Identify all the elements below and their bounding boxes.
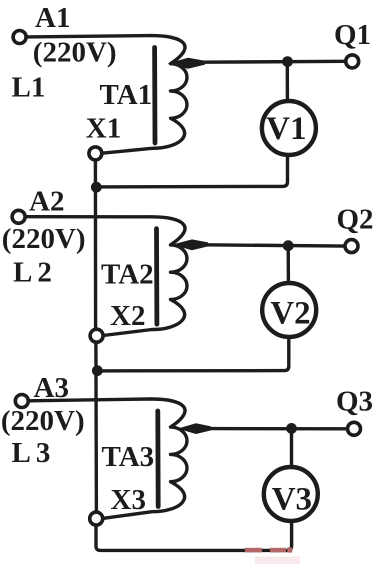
svg-text:(220V): (220V) — [2, 223, 86, 255]
svg-text:A1: A1 — [35, 2, 70, 34]
terminal A3 — [15, 395, 28, 408]
junction dot X2 bus node — [92, 365, 103, 376]
wire A2 to TA2 winding — [25, 215, 150, 219]
svg-text:Q3: Q3 — [336, 386, 373, 418]
autotransformer TA3 winding — [103, 399, 187, 518]
wire A3 to TA3 winding — [29, 399, 150, 401]
svg-text:A2: A2 — [29, 185, 64, 217]
svg-text:X1: X1 — [86, 112, 121, 144]
svg-text:V1: V1 — [266, 111, 306, 147]
svg-text:TA1: TA1 — [100, 79, 153, 111]
wire V2 return to X bus — [96, 337, 288, 371]
wire V1 return to X bus — [96, 155, 288, 187]
wire wiper to Q2 — [204, 245, 345, 246]
wire A1 to TA1 winding — [27, 36, 151, 37]
terminal A2 — [12, 210, 25, 223]
terminal Q1 — [346, 55, 359, 68]
svg-text:L2: L2 — [13, 257, 57, 289]
svg-text:L3: L3 — [12, 437, 56, 469]
svg-text:V3: V3 — [272, 482, 312, 518]
neutral bus X1 to X2 — [94, 160, 98, 328]
svg-text:TA2: TA2 — [101, 258, 154, 290]
junction dot V1 tap node — [282, 56, 293, 67]
watermark pink dashes — [245, 547, 300, 564]
svg-text:Q1: Q1 — [334, 19, 371, 51]
core bar TA2 — [154, 229, 159, 325]
wire V3 return and X3 drop (bottom wire) — [96, 523, 292, 551]
voltmeter V3 — [264, 467, 318, 521]
junction dot X1 bus node — [91, 182, 102, 193]
core bar TA3 — [155, 411, 160, 507]
svg-text:(220V): (220V) — [33, 37, 117, 69]
svg-text:TA3: TA3 — [102, 441, 155, 473]
voltmeter V2 — [262, 283, 316, 337]
wire V3 top lead — [290, 429, 293, 466]
svg-text:V2: V2 — [270, 296, 310, 332]
autotransformer TA1 winding — [102, 36, 187, 154]
junction dot V2 tap node — [283, 240, 294, 251]
terminal X1 — [89, 147, 102, 160]
wiper arrow TA2 — [172, 239, 208, 250]
svg-text:X3: X3 — [111, 484, 146, 516]
svg-text:L1: L1 — [12, 72, 46, 104]
voltmeter V1 — [262, 101, 316, 155]
svg-text:(220V): (220V) — [1, 405, 85, 437]
terminal Q2 — [345, 240, 358, 253]
neutral bus X2 to X3 — [94, 343, 98, 511]
wiper arrow TA1 — [168, 58, 206, 69]
junction dot V3 tap node — [286, 423, 297, 434]
autotransformer TA2 winding — [103, 217, 187, 336]
svg-text:Q2: Q2 — [337, 203, 374, 235]
svg-text:X2: X2 — [110, 300, 145, 332]
terminal X3 — [90, 512, 103, 525]
wire V2 top lead — [287, 247, 291, 282]
core bar TA1 — [152, 48, 157, 144]
wire wiper to Q3 — [206, 427, 348, 431]
terminal A1 — [13, 31, 26, 44]
terminal Q3 — [348, 422, 361, 435]
terminal X2 — [90, 329, 103, 342]
wire V1 top lead — [286, 62, 290, 100]
wire wiper to Q1 — [203, 60, 346, 64]
wiper arrow TA3 — [178, 423, 212, 434]
